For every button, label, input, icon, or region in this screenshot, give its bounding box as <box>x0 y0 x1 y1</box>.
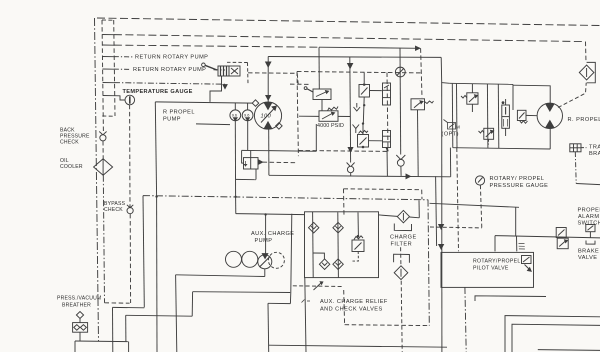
callout mark for aux charge relief <box>302 300 313 303</box>
junction dot pump A drain <box>234 196 236 198</box>
svg-text:PROPEL: PROPEL <box>578 208 600 214</box>
wire: motor bottom return <box>549 129 551 150</box>
brake release valve BV0 <box>517 110 537 123</box>
wire: charge pump suction drop <box>264 269 266 277</box>
spool valve SV1 two-position <box>502 99 510 136</box>
back pressure check valve <box>99 132 106 141</box>
wire: header H150 above shuttle <box>242 149 269 151</box>
wire: solid pilot header continuation of L3 <box>319 47 420 48</box>
flow arrowhead merge upper <box>439 225 444 230</box>
svg-text:CHECK: CHECK <box>104 207 123 213</box>
wire: corner from H56 down to control box level <box>441 57 450 83</box>
svg-text:PRESSURE GAUGE: PRESSURE GAUGE <box>490 183 549 189</box>
wire: control box inner vertical x498 <box>497 84 500 148</box>
nested return line L1 <box>505 316 600 352</box>
wire: x235 drain continues to charge header <box>235 197 237 214</box>
nested return line L2 <box>512 324 600 352</box>
svg-text:AUX. CHARGE RELIEF: AUX. CHARGE RELIEF <box>320 299 388 305</box>
dashed enclosure right edge <box>387 73 388 152</box>
wire: long vertical x440 <box>441 83 443 352</box>
wire: bus box bottom tick <box>102 115 115 117</box>
rotary/propel pressure gauge <box>475 176 484 228</box>
arrowhead adjustment <box>320 282 323 285</box>
wire: manifold bottom drop to tank x304 <box>305 278 306 352</box>
wire: riser x316 to relief RV1 <box>315 124 317 151</box>
rotary/propel pilot valve box <box>441 252 534 287</box>
check valve diamond bottom-left <box>313 253 330 270</box>
svg-text:RETURN ROTARY PUMP: RETURN ROTARY PUMP <box>133 67 206 73</box>
bypass check valve <box>127 205 133 214</box>
wire: pilot riser x516 to box <box>516 236 518 252</box>
charge filter F1 <box>379 200 420 230</box>
charge filter F2 <box>394 247 410 352</box>
wire: control box inner vertical x456 <box>456 84 459 148</box>
adjustment arrow on dashed line <box>314 283 322 291</box>
wire: drain drop x268 to bottom <box>267 303 270 352</box>
wire: bus box left dashed vertical <box>102 20 103 132</box>
cross-port relief stack B4 <box>383 131 391 148</box>
wire: top long dashed return line L1 <box>97 18 600 26</box>
sequence valve RV4 <box>479 128 494 144</box>
shuttle valve block <box>244 158 263 169</box>
wire: dashed riser x458 from control box to pilot box <box>457 148 459 251</box>
manual lever valve V1 body <box>218 66 240 76</box>
wire: header H307 <box>113 306 145 308</box>
flow arrowhead pilot line end <box>223 85 227 89</box>
aux charge pump dashed circle <box>268 252 284 268</box>
wire: bus tick y34 <box>102 34 114 36</box>
svg-text:100: 100 <box>261 114 272 120</box>
svg-text:CHECK: CHECK <box>60 140 79 146</box>
wire: short dashed pilot y84 right of valve <box>290 83 310 85</box>
wire: pump case bottom vertical <box>268 129 270 175</box>
lever handle of V1 <box>202 63 217 70</box>
svg-text:AUX. CHARGE: AUX. CHARGE <box>251 231 295 237</box>
wire: B4 drop to H175 <box>386 148 388 177</box>
wire: dashed adjust line under manifold <box>293 285 344 288</box>
wire: bottom header H315 <box>126 314 193 317</box>
return filter F3 <box>579 62 595 82</box>
svg-text:VALVE: VALVE <box>578 255 597 261</box>
wire: bus tick y45 <box>102 44 114 46</box>
check valve diamond top-right <box>333 222 343 233</box>
wire: B1 top riser <box>363 72 365 83</box>
svg-text:PRESS./VACUUM: PRESS./VACUUM <box>57 296 101 302</box>
svg-text:ROTARY/ PROPEL: ROTARY/ PROPEL <box>490 176 545 182</box>
wire: drop to shuttle left port <box>242 150 244 163</box>
wire: bus tick y56 <box>102 56 114 58</box>
check valve diamond top-left <box>309 222 319 233</box>
outer dashed box left side upper <box>343 189 346 216</box>
brake valve assembly at x560 <box>556 228 568 249</box>
wire: drain corner down at x143 <box>143 196 144 308</box>
wire: pump box line continues to tank <box>156 197 158 352</box>
svg-text:M: M <box>456 125 460 130</box>
svg-text:ALARM: ALARM <box>578 214 600 220</box>
wire: pump top supply vertical <box>267 57 269 103</box>
dashed enclosure around 4000 PSID relief group, top edge <box>297 72 421 73</box>
wire: bus box right dashed vertical <box>114 20 115 116</box>
wire: manifold inner line x312 <box>312 212 315 278</box>
wire: drain vertical x292 <box>290 214 291 304</box>
wire: D1 bottom to H175 <box>400 166 402 176</box>
wire: pump box left edge <box>155 102 156 197</box>
junction dot pump box drain <box>155 195 157 197</box>
wire: suction header H277 <box>176 275 265 277</box>
svg-text:(OPT): (OPT) <box>442 132 459 138</box>
wire: suction riser x176 to bottom header <box>176 275 177 352</box>
outer dashed box right side lower <box>428 200 429 326</box>
junction dot above B3 <box>362 122 364 124</box>
cross-port relief box B3 <box>358 131 369 149</box>
aux charge pump circle 2 <box>242 251 258 267</box>
svg-text:AND CHECK VALVES: AND CHECK VALVES <box>320 307 383 313</box>
check valve on x350 drain <box>347 163 355 173</box>
wire: pump box top edge <box>155 102 253 103</box>
temperature gauge internal thermometer mark <box>129 96 131 103</box>
nested return line L3 <box>538 349 600 352</box>
wire: B3 top stub <box>362 123 364 135</box>
wire: bus tick y95 <box>103 95 114 97</box>
propel motor R PROPEL <box>537 103 562 128</box>
wire: dashed vertical x297 drop <box>297 73 298 84</box>
transmission coupling symbol <box>570 144 600 185</box>
pressure switch propel alarm <box>586 225 595 245</box>
wire: control box drop to H175 <box>449 148 451 177</box>
charge relief valve RV5 <box>351 235 364 261</box>
wire: drop x125 to tank top <box>125 315 127 341</box>
wire: H206 header <box>430 203 520 207</box>
wire: V1 outlet elbow down to pump line <box>210 76 222 102</box>
wire: bus tick y82 <box>103 82 114 84</box>
check valve manifold box <box>305 212 379 278</box>
temperature gauge circle <box>125 95 135 105</box>
svg-text:FILTER: FILTER <box>391 242 413 248</box>
cross-port relief box B1 <box>359 83 370 97</box>
wire: dashed pilot box right of V1 <box>247 63 250 84</box>
propel control valve box outline <box>450 83 551 149</box>
wire: manifold inner line x337 <box>337 212 340 278</box>
wire: dashed line gauge down to bypass check <box>129 105 131 207</box>
wire: dash-dot pilot line y82 to valve <box>114 83 225 85</box>
wire: drop x112 to image bottom <box>112 307 114 352</box>
wire: dashed return line L3 <box>114 45 319 47</box>
wire: dash-dot below pilot box x465 <box>465 287 466 352</box>
wire: motor top feed <box>513 85 550 103</box>
check valve circle CV1 <box>395 67 405 77</box>
wire: dashed drop from L2 to filter <box>585 42 588 63</box>
wire: charge pump outlet riser <box>265 214 267 255</box>
wire: RV1 outlet to x350 <box>338 115 350 117</box>
flow arrowhead on x350 <box>348 148 353 153</box>
wire: x515 drop from H206 <box>515 207 517 235</box>
wire: shuttle drain horizontal <box>236 178 257 180</box>
svg-text:COOLER: COOLER <box>60 164 83 170</box>
wire: vertical supply x350 in relief block <box>349 57 352 116</box>
wire: x350 line down to H175 <box>349 116 351 177</box>
flow arrowhead on H175 <box>406 174 410 178</box>
wire: dashed spur into pilot area H228 <box>430 226 482 229</box>
wire: tank return header H294 <box>193 291 291 294</box>
wire: left vertical dash-dot bus line <box>95 18 99 341</box>
wire: dashed return line L2 <box>114 35 586 42</box>
wire: drop to pilot valve box at x495 <box>494 236 496 252</box>
wire: pump top horizontal to check circle <box>268 56 441 59</box>
flow arrowhead merge lower at pilot box corner <box>439 245 444 250</box>
wire: chain cooler down to tank <box>103 175 104 303</box>
pilot symbol on riser <box>519 244 525 250</box>
wire: dashed pilot from shuttle to right <box>263 161 297 164</box>
flow arrowhead above pump inlet <box>266 96 271 101</box>
svg-text:PUMP: PUMP <box>163 117 181 123</box>
nested return line outer corner <box>475 296 546 301</box>
outer dashed box left side lower <box>343 290 346 325</box>
svg-text:BRA: BRA <box>589 151 600 157</box>
tank left wall <box>74 341 76 352</box>
pilot operated valve V2 <box>304 87 331 100</box>
svg-text:CHARGE: CHARGE <box>390 235 417 241</box>
wire: drain elbow H303 <box>268 302 290 304</box>
label OPT meter <box>442 125 461 138</box>
svg-text:R PROPEL: R PROPEL <box>163 110 195 116</box>
wire: chain check to cooler <box>102 141 104 159</box>
aux charge pump circle 1 <box>226 251 242 267</box>
outer dashed box top H189 <box>344 188 422 191</box>
outer dashed box right side upper <box>421 190 423 200</box>
wire: link B1 to B2 <box>370 90 383 92</box>
main relief valve RV1 4000 PSID <box>319 107 338 122</box>
wire: RV1 inlet from left <box>299 115 319 117</box>
wire: pump B output down <box>247 121 249 151</box>
outer dashed box bottom H324 <box>345 324 430 327</box>
wire: pump A output down to dash-dot junction <box>234 121 236 197</box>
reducing valve RV3 <box>461 84 478 112</box>
junction dot below B4 <box>386 147 388 149</box>
junction dot charge outlet <box>264 213 266 215</box>
check valve chevron lower <box>353 125 360 134</box>
wire: return rotary pump callout line 2 <box>114 68 131 70</box>
wire: temperature gauge feed line <box>114 96 125 100</box>
wire: tank header H343 <box>269 345 448 347</box>
wire: RV2 outlet down to H175 <box>417 110 420 177</box>
wire: control box inner vertical x487 <box>486 84 489 148</box>
wire: bus box top tick <box>102 19 114 21</box>
svg-text:4000 PSID: 4000 PSID <box>317 123 344 129</box>
wire: dash-dot drain line H196 <box>143 196 428 200</box>
charge pump 9.6 circle A <box>230 103 241 121</box>
cross-port relief stack B2 <box>383 83 391 105</box>
wire: riser x192 tank leg <box>191 292 193 317</box>
wire: return rotary pump callout line 1 <box>114 56 133 58</box>
wire: solid pilot line H151 from pump bottom <box>269 150 317 153</box>
svg-text:TRA: TRA <box>589 145 600 151</box>
check valve chevron upper <box>354 103 361 111</box>
wire: dashed pilot box top of V1 <box>227 61 248 63</box>
wire: short parallel vertical x436 <box>436 176 437 246</box>
wire: shuttle top port stub <box>250 151 252 158</box>
svg-text:R. PROPEL: R. PROPEL <box>568 117 600 123</box>
wire: dashed below bypass check <box>129 214 131 303</box>
svg-text:RETURN ROTARY PUMP: RETURN ROTARY PUMP <box>135 55 208 61</box>
svg-text:9.6: 9.6 <box>232 112 237 117</box>
wire: small drain line under pumps <box>196 123 230 126</box>
wire: dashed case drain motor to filter <box>558 83 586 108</box>
svg-text:9.6: 9.6 <box>244 112 249 117</box>
dashed enclosure bottom edge <box>299 150 389 153</box>
wire: shuttle bottom port <box>255 169 257 180</box>
wire: dashed elbow y303 <box>105 302 130 304</box>
svg-text:BREATHER: BREATHER <box>62 303 91 309</box>
wire: dashed drop from L3 to relief valve <box>421 48 422 97</box>
svg-text:BRAKE: BRAKE <box>578 249 599 255</box>
wire: return line 2 continuation to lever valve <box>214 69 226 71</box>
wire: manifold inner line x358 <box>357 212 359 236</box>
oil cooler diamond <box>94 159 113 175</box>
check valve D1 <box>396 155 405 166</box>
svg-text:TEMPERATURE GAUGE: TEMPERATURE GAUGE <box>123 89 193 95</box>
press/vacuum breather symbol <box>73 312 88 342</box>
junction dot below B1 <box>363 104 365 106</box>
svg-text:SWITCH: SWITCH <box>578 221 600 227</box>
svg-text:ROTARY/PROPEL: ROTARY/PROPEL <box>473 259 521 265</box>
small valve symbol in pilot box <box>522 256 532 272</box>
flow arrowhead x350 <box>348 64 353 69</box>
charge pump 9.6 circle B <box>242 103 253 121</box>
main variable pump 100 <box>252 100 282 129</box>
wire: drop to pilot valve V2 <box>318 47 320 89</box>
wire: brake header H237 <box>495 236 600 238</box>
wire: B1 bottom stub to B3 <box>362 97 365 124</box>
arrowhead at end of pilot header <box>416 46 420 50</box>
flow meter symbol OPT <box>444 120 456 130</box>
aux charge pump rotor with arrow <box>258 254 272 269</box>
wire: dashed pilot from V1 to relief block <box>248 72 297 75</box>
wire: vertical through CV1 down to diamond <box>399 48 402 155</box>
relief valve RV2 <box>411 99 434 110</box>
tank right wall <box>128 342 130 352</box>
wire: link B3 to B4 <box>369 140 383 142</box>
wire: V2 to RV1 link <box>321 100 323 111</box>
wire: long horizontal H175 to control block <box>269 175 451 177</box>
svg-text:PUMP: PUMP <box>255 238 273 244</box>
flow arrowhead on pump supply <box>266 62 271 67</box>
wire: bus tick y69 <box>103 68 115 70</box>
dashed enclosure left edge <box>297 72 298 157</box>
tank box bottom left <box>75 340 129 343</box>
svg-text:PILOT VALVE: PILOT VALVE <box>473 266 509 272</box>
check valve diamond bottom-right <box>333 259 343 270</box>
wire: charge header H214 <box>236 214 305 215</box>
